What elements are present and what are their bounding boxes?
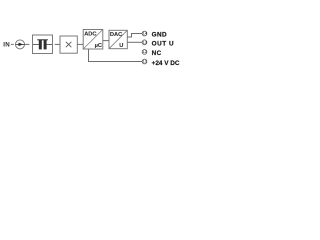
svg-text:1.2: 1.2 bbox=[142, 50, 147, 54]
svg-text:1.3: 1.3 bbox=[142, 40, 147, 44]
ADC / microcontroller box bbox=[83, 30, 103, 50]
svg-text:NC: NC bbox=[152, 50, 162, 57]
wire DAC to OUT U terminal bbox=[127, 41, 142, 43]
multiplier box with x bbox=[60, 36, 77, 53]
svg-text:OUT U: OUT U bbox=[152, 40, 175, 47]
terminal 1.3 bbox=[142, 40, 147, 45]
DAC / U output box bbox=[109, 30, 127, 49]
input signal symbol (circle with arrow) bbox=[16, 40, 25, 49]
svg-text:DAC: DAC bbox=[110, 32, 122, 38]
wire uC to +24V terminal bbox=[89, 49, 143, 62]
svg-text:1.1: 1.1 bbox=[142, 60, 147, 64]
svg-text:+24 V DC: +24 V DC bbox=[152, 60, 180, 67]
svg-text:GND: GND bbox=[152, 32, 167, 39]
transformer symbol: side lines, two windings, top core line bbox=[33, 43, 39, 45]
wire DAC to GND terminal (step up) bbox=[127, 34, 142, 38]
terminal 1.1 bbox=[142, 59, 147, 64]
terminal 1.4 bbox=[142, 31, 147, 36]
wire multiplier to ADC box bbox=[77, 43, 83, 45]
wire IN to input symbol bbox=[11, 43, 14, 45]
transformer (isolation) box bbox=[33, 35, 53, 54]
svg-text:µC: µC bbox=[95, 43, 102, 49]
svg-text:ADC: ADC bbox=[84, 31, 96, 37]
svg-text:IN: IN bbox=[3, 42, 10, 49]
svg-text:1.4: 1.4 bbox=[142, 32, 147, 36]
svg-text:U: U bbox=[119, 43, 123, 49]
terminal 1.2 bbox=[142, 50, 147, 55]
wire ADC box to DAC box bbox=[103, 40, 109, 42]
wire input symbol to transformer box bbox=[25, 43, 30, 45]
wire transformer to multiplier bbox=[55, 43, 60, 45]
background bbox=[0, 0, 185, 101]
